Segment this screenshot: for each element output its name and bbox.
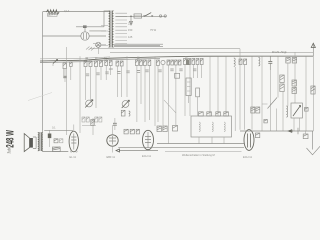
resistor R16 xyxy=(91,120,94,126)
svg-text:248 W: 248 W xyxy=(5,130,17,148)
shading hatch below rectifier xyxy=(86,47,95,51)
grid cap box xyxy=(255,133,259,138)
small capacitor C19 xyxy=(264,120,267,123)
coil L1 xyxy=(234,58,235,66)
coil L3 xyxy=(129,111,130,116)
wire: IF secondary to band filter xyxy=(189,96,198,117)
transformer T1 primary winding xyxy=(109,11,110,47)
wire: rectifier anode feed xyxy=(76,26,104,28)
rectifier tube RG xyxy=(81,32,89,40)
capacitor C5 with label 100 xyxy=(109,61,112,66)
svg-text:ECH 11: ECH 11 xyxy=(142,154,151,158)
detector box xyxy=(175,73,180,78)
resistor R12 xyxy=(196,59,199,65)
fuse Si xyxy=(134,14,142,18)
junction arrow on bus xyxy=(53,60,58,64)
capacitor C4 with label 30 xyxy=(105,61,108,66)
wire: AF coupling xyxy=(82,118,96,135)
resistor R15b xyxy=(292,58,296,64)
wire: osc section drops xyxy=(262,92,300,132)
wire: bus faint upper xyxy=(40,57,110,59)
vertical interconnect wires xyxy=(53,47,313,144)
output transformer primary xyxy=(38,133,39,151)
band filter unit box xyxy=(191,116,232,137)
trimmer T2 xyxy=(207,112,212,116)
capacitor stub bars below row xyxy=(86,69,197,76)
wire: IF link upper xyxy=(157,143,244,145)
wire: rectifier to left frame xyxy=(43,35,81,37)
capacitor C14 xyxy=(200,59,203,65)
svg-text:75 W: 75 W xyxy=(150,28,157,32)
resistor R1 (mains barretter) xyxy=(47,10,60,14)
resistor R7 xyxy=(140,60,143,66)
capacitor C20 (electrolytic, dark) xyxy=(48,134,52,139)
mains switch xyxy=(144,15,145,16)
wire: EL11 anode xyxy=(73,125,75,132)
capacitor C17a bars xyxy=(113,123,117,125)
capacitor C13 xyxy=(188,59,191,65)
wire: HT rail upper xyxy=(90,48,240,50)
loudspeaker xyxy=(30,138,33,148)
wire: output transformer to EL11 xyxy=(43,130,74,151)
resistor R24 xyxy=(54,139,58,143)
capacitor C8 xyxy=(144,60,147,66)
heater winding leads band xyxy=(114,44,163,46)
capacitor C11 xyxy=(171,60,174,65)
secondary taps xyxy=(115,13,127,44)
wire: IF link lower xyxy=(118,146,244,148)
resistor R15 xyxy=(286,58,290,64)
oscillator coil L4 xyxy=(286,106,287,117)
svg-text:ECH 11: ECH 11 xyxy=(243,155,252,159)
wire: chassis bus lower xyxy=(40,58,160,62)
power transformer T1 core xyxy=(110,11,112,48)
capacitor C2 xyxy=(84,61,87,67)
wire: oscillator bottom rail xyxy=(240,130,313,132)
wire: speaker to transformer xyxy=(33,137,36,149)
band filter coils xyxy=(199,122,200,132)
darker capacitor blob xyxy=(186,60,189,66)
resistor R22 xyxy=(292,80,296,86)
resistor R27 xyxy=(163,126,167,132)
wave switch box xyxy=(173,126,178,132)
band filter bottom stubs xyxy=(199,137,224,144)
capacitor C6 xyxy=(116,61,119,66)
junction vertical xyxy=(297,128,299,134)
resistor R2 xyxy=(63,63,66,69)
wire: EBF11 leads xyxy=(112,125,114,153)
trimmer T3 xyxy=(216,112,221,116)
svg-text:0,1A: 0,1A xyxy=(64,9,70,13)
wire: right drop xyxy=(312,131,314,150)
mixer tube ECH11 xyxy=(143,130,154,149)
capacitor C7 xyxy=(120,61,123,66)
resistor R25 xyxy=(52,147,60,152)
svg-text:0,1: 0,1 xyxy=(52,126,56,130)
dial lamp xyxy=(96,42,101,47)
wire: main bus (dark, slight scan slope) xyxy=(40,56,313,61)
svg-text:Saba: Saba xyxy=(8,147,13,154)
diagonal wire to mixer xyxy=(268,98,278,109)
output transformer core xyxy=(39,132,41,151)
svg-text:Draht-Abgl.: Draht-Abgl. xyxy=(272,50,287,54)
wire: primary top lead xyxy=(104,11,108,27)
resistor R19 xyxy=(136,129,139,134)
svg-text:EBF 11: EBF 11 xyxy=(107,155,116,159)
capacitor C2b bars xyxy=(63,76,66,78)
resistor bank R30-R33 xyxy=(82,117,85,122)
wire: rectifier to transformer xyxy=(89,31,106,36)
resistor R3 xyxy=(70,62,73,66)
capacitor C15 xyxy=(268,62,272,64)
transformer T1 secondary winding xyxy=(112,11,113,47)
svg-text:EL 11: EL 11 xyxy=(70,155,77,159)
wire: primary left taps xyxy=(95,26,108,46)
capacitor C3 xyxy=(89,61,92,67)
wire: mains branch from tap xyxy=(116,15,167,17)
capacitor C21 xyxy=(303,134,308,139)
resistor R20 xyxy=(280,75,284,83)
small caps above bus row xyxy=(86,57,188,59)
svg-text:100: 100 xyxy=(109,67,114,71)
resistor R11 xyxy=(192,59,195,65)
scan scratch xyxy=(28,93,52,101)
resistor R10 xyxy=(178,60,181,65)
wire: band link xyxy=(165,151,242,153)
switch contact arrow xyxy=(288,130,293,133)
trimmer C18 xyxy=(311,86,315,94)
resistor R9 xyxy=(175,60,178,65)
cable swoosh xyxy=(307,146,320,155)
resistor R21 xyxy=(280,84,284,92)
resistor R4 xyxy=(95,61,98,67)
resistor R26 xyxy=(157,126,161,132)
arrow wire AVC xyxy=(119,150,158,152)
potentiometer P1 (volume) xyxy=(86,100,93,107)
osc tube ECH11 second xyxy=(244,130,254,151)
wire: top horizontal mains feed xyxy=(43,11,111,13)
svg-text:Wellenschalter in Stellung M: Wellenschalter in Stellung M xyxy=(182,153,215,157)
variable capacitor box xyxy=(291,103,302,118)
junction circle xyxy=(161,60,165,64)
resistor R23 xyxy=(292,88,296,94)
small capacitor C19b xyxy=(305,108,309,112)
svg-text:125: 125 xyxy=(128,35,133,39)
capacitor C16 xyxy=(124,129,128,134)
diagonal coupling wire xyxy=(164,100,176,113)
trimmer T4 xyxy=(224,112,229,116)
IF tube EBF11 xyxy=(107,135,118,146)
EL11 pins xyxy=(70,151,72,153)
capacitor C12 xyxy=(184,59,187,65)
resistor R6 xyxy=(136,60,139,66)
resistor R5 xyxy=(100,61,103,67)
capacitor C1 above rectifier xyxy=(83,25,87,28)
wire: left frame vertical xyxy=(42,12,44,152)
IF transformer IF1 xyxy=(186,78,191,96)
antenna arrow xyxy=(312,45,314,57)
svg-text:220: 220 xyxy=(128,21,133,25)
capacitor C10 xyxy=(167,60,170,65)
voltage selector plug arrow xyxy=(130,16,132,23)
mains plug terminals xyxy=(159,15,161,17)
wire: lamp leads xyxy=(93,43,106,54)
oscillator section hatched resistors xyxy=(251,107,255,113)
potentiometer P2 (tone) xyxy=(122,101,129,108)
resistor R13 xyxy=(239,59,242,65)
resistor R14 xyxy=(244,59,247,65)
capacitor C17 xyxy=(130,129,134,134)
trimmer T1 xyxy=(199,112,204,116)
IF transformer IF1 secondary xyxy=(196,88,200,97)
junction dot xyxy=(130,15,132,17)
output tube EL11 xyxy=(69,131,78,152)
capacitor C9 xyxy=(148,60,151,66)
output transformer secondary xyxy=(41,133,42,151)
wire: HT rail second xyxy=(110,51,313,53)
resistor R8 xyxy=(157,60,160,66)
svg-text:150: 150 xyxy=(128,28,133,32)
capacitor C16a xyxy=(121,110,125,116)
coil L2 xyxy=(259,58,260,66)
